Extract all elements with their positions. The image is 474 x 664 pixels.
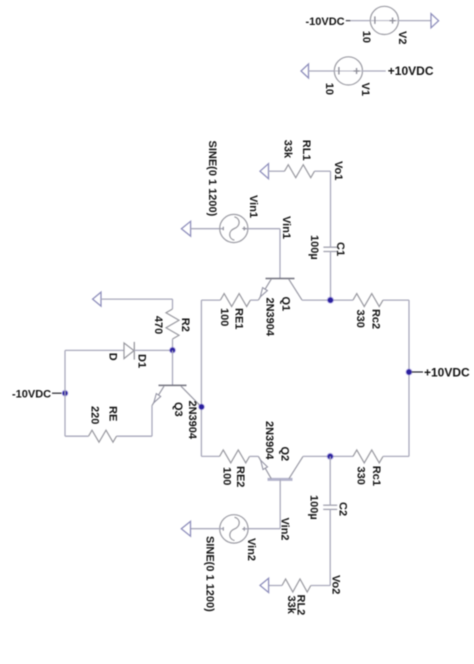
- svg-text:SINE(0 1 1200): SINE(0 1 1200): [206, 141, 218, 217]
- wire left bus (Q1 RE1 to Q2 RE2): [200, 300, 202, 456]
- node Vin1: [280, 216, 292, 239]
- wire right supply bus: [408, 300, 410, 456]
- port flag RL1: [260, 164, 269, 179]
- node Vo1: [332, 161, 344, 180]
- value SINE(0 1 1200) of Vin2: [204, 536, 216, 612]
- designator RE2: [234, 466, 246, 487]
- transistor Q2 2N3904: [258, 456, 303, 479]
- junction node Vo1/C1/Q1 collector: [327, 297, 334, 304]
- designator Vin1: [247, 195, 259, 218]
- svg-text:Q3: Q3: [172, 402, 184, 417]
- svg-text:RE1: RE1: [233, 308, 245, 329]
- svg-text:-10VDC: -10VDC: [12, 388, 51, 400]
- wire Q2 base down to Vin2: [279, 479, 281, 528]
- wire Rc1 to right bus: [383, 455, 409, 457]
- svg-text:100µ: 100µ: [308, 235, 320, 260]
- diode D1: [124, 342, 134, 360]
- svg-text:10: 10: [360, 31, 372, 43]
- wire junction down to Q3 base: [172, 350, 174, 385]
- wire port to R2 corner: [101, 299, 173, 309]
- resistor Rc2: [353, 294, 383, 307]
- wire C2 top lead: [329, 456, 331, 505]
- svg-text:33k: 33k: [282, 140, 294, 159]
- svg-text:330: 330: [354, 310, 366, 328]
- port flag SINE source Vin1: [181, 221, 190, 236]
- designator C2: [337, 502, 349, 516]
- value 2N3904 (Q3): [186, 401, 198, 440]
- svg-text:Vin1: Vin1: [280, 216, 292, 239]
- svg-text:100µ: 100µ: [308, 495, 320, 520]
- capacitor C2: [323, 505, 337, 509]
- designator RE1: [233, 308, 245, 329]
- wire C1 to collector node: [330, 252, 332, 300]
- svg-text:Q1: Q1: [280, 297, 292, 312]
- port flag Vin2: [181, 521, 190, 536]
- value 100 (RE1): [218, 308, 230, 326]
- svg-text:Vo2: Vo2: [330, 575, 342, 594]
- svg-text:V2: V2: [396, 31, 408, 44]
- svg-text:RL1: RL1: [300, 140, 312, 161]
- wire left bus top corner to RE1: [201, 299, 220, 301]
- value D (D1): [107, 353, 119, 361]
- wire -10VDC vertical branch: [64, 350, 66, 436]
- svg-text:D1: D1: [135, 354, 147, 368]
- designator Q1: [280, 297, 292, 312]
- value 10 (V1): [323, 83, 335, 95]
- svg-text:SINE(0 1 1200): SINE(0 1 1200): [204, 536, 216, 612]
- value 2N3904 (Q1): [264, 298, 276, 337]
- wire V1 negative lead: [309, 70, 335, 72]
- port flag RL2: [260, 578, 269, 592]
- svg-text:RE2: RE2: [234, 466, 246, 487]
- value 10 (V2): [360, 31, 372, 43]
- svg-text:V1: V1: [359, 83, 371, 96]
- svg-text:Vin2: Vin2: [245, 538, 257, 561]
- svg-text:Vin1: Vin1: [247, 195, 259, 218]
- label -10VDC net (left): [12, 388, 51, 400]
- svg-text:Rc1: Rc1: [370, 466, 382, 486]
- value 100u (C1): [308, 235, 320, 260]
- wire V2 negative lead: [346, 20, 371, 22]
- resistor RL2: [282, 579, 311, 592]
- wire V1 positive lead: [363, 70, 386, 72]
- value 330 (Rc2): [354, 310, 366, 328]
- label +10VDC net (right bus): [424, 365, 470, 379]
- designator V1: [359, 83, 371, 96]
- wire diode cathode to R2 junction: [134, 349, 172, 351]
- wire Vin2 corner to source: [248, 528, 280, 530]
- wire V2 positive lead: [399, 20, 432, 22]
- wire Vin1 output to corner: [248, 228, 280, 230]
- wire -10VDC to diode anode: [65, 349, 124, 351]
- svg-text:2N3904: 2N3904: [263, 421, 275, 460]
- svg-text:330: 330: [355, 467, 367, 485]
- value 33k (RL2): [285, 596, 297, 615]
- svg-text:R2: R2: [179, 318, 191, 332]
- junction node +10VDC: [405, 368, 423, 375]
- svg-text:Vo1: Vo1: [332, 161, 344, 180]
- resistor RE2: [220, 450, 250, 463]
- value 330 (Rc1): [355, 467, 367, 485]
- svg-text:2N3904: 2N3904: [186, 401, 198, 440]
- designator Rc1: [370, 466, 382, 486]
- value SINE(0 1 1200) of Vin1: [206, 141, 218, 217]
- resistor RL1: [285, 165, 315, 178]
- wire Q3 emitter down: [151, 406, 153, 437]
- wire RL1 to Vo1 corner: [315, 170, 331, 172]
- junction node D1/R2/Q3 base: [169, 347, 176, 354]
- junction node Q3 collector: [198, 404, 205, 411]
- value 100 (RE2): [221, 467, 233, 485]
- port flag R2 top: [93, 292, 101, 306]
- wire RE right lead: [117, 435, 153, 437]
- resistor R2: [166, 309, 179, 339]
- junction node -10VDC: [52, 390, 68, 397]
- junction node Q2 collector/C2: [327, 453, 334, 460]
- svg-text:100: 100: [221, 467, 233, 485]
- designator C1: [334, 242, 346, 256]
- designator Q3: [172, 402, 184, 417]
- wire Vin1 left lead: [191, 228, 248, 230]
- wire Vin2 left lead: [191, 528, 249, 530]
- wire Q1 collector to Rc2: [302, 299, 353, 301]
- wire RL1 left lead: [269, 170, 285, 172]
- value 2N3904 (Q2): [263, 421, 275, 460]
- wire Vin1 net down to Q1 base: [279, 229, 281, 279]
- wire C2 bottom to Vo2 corner: [329, 510, 331, 586]
- wire RE1 to Q1 emitter: [250, 299, 258, 301]
- wire Vo2 corner to RL2: [311, 585, 330, 587]
- svg-text:C1: C1: [334, 242, 346, 256]
- value 220 (RE): [89, 406, 101, 424]
- svg-text:D: D: [107, 353, 119, 361]
- svg-text:RE: RE: [107, 406, 119, 421]
- svg-text:C2: C2: [337, 502, 349, 516]
- designator Vin2: [245, 538, 257, 561]
- svg-text:2N3904: 2N3904: [264, 298, 276, 337]
- label -10VDC net (V2): [306, 16, 345, 28]
- node Vin2: [279, 518, 291, 541]
- node Vo2: [330, 575, 342, 594]
- capacitor C1: [323, 247, 337, 251]
- label +10VDC net (V1): [388, 64, 434, 78]
- designator V2: [396, 31, 408, 44]
- transistor Q3 2N3904: [152, 385, 201, 407]
- svg-text:100: 100: [218, 308, 230, 326]
- wire RE2 to Q2 emitter: [250, 455, 259, 457]
- wire Vo1 down to C1: [330, 171, 332, 247]
- wire RL2 left lead: [269, 585, 282, 587]
- sine voltage source Vin1: [220, 214, 248, 242]
- svg-text:Rc2: Rc2: [369, 309, 381, 329]
- value 100u (C2): [308, 495, 320, 520]
- value 470 (R2): [152, 316, 164, 334]
- value 33k (RL1): [282, 140, 294, 159]
- designator RL2: [295, 595, 307, 616]
- port flag V1 negative: [301, 64, 309, 78]
- port flag V2 output: [431, 14, 439, 28]
- voltage source V2: [370, 6, 398, 34]
- designator Q2: [279, 447, 291, 462]
- resistor RE1: [220, 294, 250, 307]
- svg-text:Vin2: Vin2: [279, 518, 291, 541]
- svg-text:220: 220: [89, 406, 101, 424]
- designator RL1: [300, 140, 312, 161]
- wire R2 bottom to diode junction: [172, 339, 174, 350]
- transistor Q1 2N3904: [258, 279, 302, 301]
- wire RE left lead corner: [65, 435, 89, 437]
- svg-text:-10VDC: -10VDC: [306, 16, 345, 28]
- resistor RE: [89, 430, 117, 442]
- designator D1: [135, 354, 147, 368]
- resistor Rc1: [353, 450, 383, 463]
- wire Q2 collector to Rc1: [303, 455, 353, 457]
- svg-text:470: 470: [152, 316, 164, 334]
- voltage source V1: [334, 57, 362, 85]
- svg-text:+10VDC: +10VDC: [388, 64, 434, 78]
- svg-text:+10VDC: +10VDC: [424, 365, 470, 379]
- designator Rc2: [369, 309, 381, 329]
- svg-text:33k: 33k: [285, 596, 297, 615]
- sine voltage source Vin2: [220, 515, 248, 543]
- wire Rc2 to right bus: [383, 299, 409, 301]
- svg-text:10: 10: [323, 83, 335, 95]
- designator RE: [107, 406, 119, 421]
- wire left bus bottom corner to RE2: [201, 455, 219, 457]
- designator R2: [179, 318, 191, 332]
- svg-text:Q2: Q2: [279, 447, 291, 462]
